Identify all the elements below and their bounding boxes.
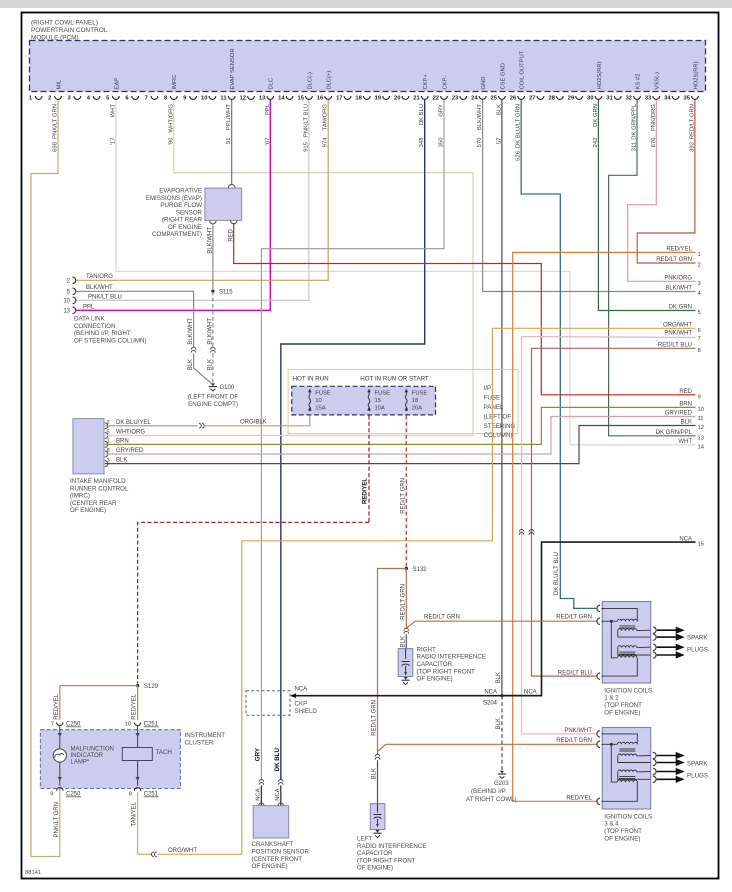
right radio interference capacitor <box>398 649 413 677</box>
svg-text:9: 9 <box>698 394 701 400</box>
wire into MIL <box>59 726 61 749</box>
svg-text:21: 21 <box>413 96 420 102</box>
left radio interference capacitor <box>370 804 385 830</box>
svg-text:FUSE: FUSE <box>315 391 331 397</box>
svg-text:PLUGS: PLUGS <box>687 772 708 779</box>
svg-text:RIGHT: RIGHT <box>417 646 436 653</box>
svg-text:COIL OUTPUT: COIL OUTPUT <box>520 50 526 89</box>
svg-text:25: 25 <box>490 96 497 102</box>
PCM pin terminal arcs <box>35 96 42 99</box>
svg-text:BLK: BLK <box>208 359 214 370</box>
wire BLK/WHT dashed below S115 <box>212 291 214 347</box>
svg-text:DLC: DLC <box>269 78 275 90</box>
svg-text:20: 20 <box>394 96 400 102</box>
wire RED/LT BLU from right edge pin 8 to ignition coils 1+2 <box>532 348 696 676</box>
wire RED/LT GRN 392 from pin 35 to right edge pin 2 <box>637 100 695 263</box>
svg-text:RED/LT GRN: RED/LT GRN <box>400 478 406 514</box>
wire MIL to C250 pin 9 <box>59 763 61 786</box>
wire PPL 07 from pin 13 to DLC <box>76 100 270 310</box>
svg-text:FUSE: FUSE <box>412 391 428 397</box>
wire BLK/WHT from EVAP sensor to splice S115 <box>210 221 216 224</box>
svg-text:1 & 2: 1 & 2 <box>604 695 619 702</box>
svg-text:NCA: NCA <box>484 689 497 695</box>
svg-text:HO2S(RR): HO2S(RR) <box>597 61 603 89</box>
wire into TACH <box>137 726 139 748</box>
svg-text:(TOP RIGHT FRONT: (TOP RIGHT FRONT <box>417 668 476 675</box>
svg-text:OF ENGINE): OF ENGINE) <box>417 676 453 683</box>
wire PPL/WHT 91 from pin 11 to EVAP sensor <box>231 100 233 185</box>
svg-text:18: 18 <box>355 96 362 102</box>
wire BLK from DLC to G100 <box>194 353 212 383</box>
inline connector on EVAP ground wire <box>211 347 216 349</box>
svg-text:POSITION SENSOR: POSITION SENSOR <box>252 849 310 856</box>
svg-text:RED/LT GRN: RED/LT GRN <box>400 584 406 620</box>
svg-text:BLK: BLK <box>372 768 378 779</box>
svg-text:INDICATOR: INDICATOR <box>71 753 104 759</box>
svg-text:IGNITION COILS: IGNITION COILS <box>604 813 652 820</box>
svg-text:GRY/RED: GRY/RED <box>116 448 144 454</box>
svg-text:CLUSTER: CLUSTER <box>185 739 214 746</box>
svg-text:CAPACITOR: CAPACITOR <box>417 661 453 668</box>
inline connector on PNK/WHT wire <box>519 530 524 532</box>
svg-text:3 & 4: 3 & 4 <box>604 821 619 828</box>
svg-text:RED: RED <box>679 389 692 395</box>
svg-text:BRN: BRN <box>116 439 129 445</box>
svg-text:RED/LT GRN: RED/LT GRN <box>556 738 592 744</box>
svg-text:VSS(-): VSS(-) <box>655 72 661 89</box>
svg-text:18: 18 <box>412 398 418 404</box>
svg-text:KS #2: KS #2 <box>635 74 641 90</box>
svg-text:BLK/WHT: BLK/WHT <box>188 318 194 345</box>
wire TACH to C251 pin 8 <box>137 761 139 786</box>
wire RED/YEL dashed from fuse 15 to splice S129 <box>368 416 370 523</box>
svg-text:BLK/WHT: BLK/WHT <box>208 318 214 345</box>
wire GRY 350 from pin 22 to crank sensor <box>261 100 444 780</box>
wire TAN/ORG 974 from pin 16 to DLC <box>76 100 328 280</box>
svg-text:CSE GND: CSE GND <box>500 63 506 89</box>
svg-text:12: 12 <box>698 425 704 431</box>
inline connector above left radio capacitor <box>375 754 380 756</box>
svg-text:19: 19 <box>375 96 382 102</box>
svg-text:G203: G203 <box>494 781 509 787</box>
svg-text:INTAKE MANIFOLD: INTAKE MANIFOLD <box>70 478 126 485</box>
svg-text:SPARK: SPARK <box>687 760 708 767</box>
svg-text:GRY: GRY <box>254 747 261 761</box>
inline connector on GRY wire <box>259 780 264 782</box>
svg-text:CAPACITOR: CAPACITOR <box>357 850 393 857</box>
svg-text:10: 10 <box>201 96 207 102</box>
svg-text:(CENTER REAR: (CENTER REAR <box>70 500 117 507</box>
svg-text:INSTRUMENT: INSTRUMENT <box>185 732 226 739</box>
svg-text:(RIGHT COWL PANEL): (RIGHT COWL PANEL) <box>31 20 98 27</box>
svg-text:(TOP FRONT: (TOP FRONT <box>604 702 642 709</box>
svg-text:DK BLU: DK BLU <box>274 747 281 771</box>
wire RED/YEL solid from right edge pin 1 to ignition coils 3+4 <box>513 252 696 801</box>
svg-text:PNK/WHT: PNK/WHT <box>564 728 592 734</box>
svg-text:TAN/YEL: TAN/YEL <box>132 801 138 826</box>
svg-text:6: 6 <box>698 328 701 334</box>
svg-text:CONNECTION: CONNECTION <box>74 323 116 330</box>
svg-text:14: 14 <box>698 445 705 451</box>
IMRC box <box>73 419 104 474</box>
svg-text:BLK: BLK <box>188 359 194 370</box>
svg-text:13: 13 <box>63 309 70 315</box>
svg-text:11: 11 <box>220 96 227 102</box>
svg-text:DLC(+): DLC(+) <box>327 71 333 90</box>
svg-text:7: 7 <box>145 96 148 102</box>
ground G100 <box>211 383 215 386</box>
svg-text:CRANKSHAFT: CRANKSHAFT <box>252 841 294 848</box>
svg-text:BLK: BLK <box>496 718 502 729</box>
wire TAN/YEL from C251 pin 8 to ORG/WHT run <box>137 792 139 854</box>
svg-text:ENGINE COMPT): ENGINE COMPT) <box>188 401 238 408</box>
wire BLK to right radio capacitor <box>405 634 407 648</box>
svg-text:RED/YEL: RED/YEL <box>363 478 369 504</box>
ground G203 <box>500 771 504 774</box>
svg-text:9: 9 <box>50 792 53 798</box>
svg-text:(LEFT FRONT OF: (LEFT FRONT OF <box>188 393 239 400</box>
fuse 15 10A <box>367 389 371 393</box>
svg-text:29: 29 <box>568 96 575 102</box>
svg-text:15: 15 <box>297 96 304 102</box>
instrument cluster box <box>40 730 180 789</box>
svg-text:SPARK: SPARK <box>687 634 708 641</box>
svg-text:8: 8 <box>698 348 701 354</box>
wire BLK/WHT 570 from pin 24 to right edge pin 4 <box>483 100 696 292</box>
svg-text:20A: 20A <box>412 406 422 412</box>
svg-text:WHT: WHT <box>678 439 692 445</box>
svg-text:HOT IN RUN OR START: HOT IN RUN OR START <box>360 375 429 382</box>
svg-text:(RIGHT REAR: (RIGHT REAR <box>162 217 203 224</box>
svg-text:BRN: BRN <box>679 402 692 408</box>
right radio capacitor ground <box>404 677 408 680</box>
svg-text:2: 2 <box>698 263 701 269</box>
svg-text:EAP: EAP <box>114 78 120 90</box>
svg-text:OF ENGINE): OF ENGINE) <box>604 836 640 843</box>
svg-text:DK BLU/LT BLU: DK BLU/LT BLU <box>554 552 560 595</box>
svg-text:24: 24 <box>471 96 478 102</box>
svg-text:BLK: BLK <box>496 672 502 683</box>
svg-text:RED/YEL: RED/YEL <box>566 796 592 802</box>
wire RED/LT GRN dashed from fuse 18 to splice S132 <box>405 416 407 569</box>
svg-text:CKP: CKP <box>295 701 308 708</box>
svg-text:(IMRC): (IMRC) <box>70 493 90 500</box>
splice S204 <box>500 694 503 697</box>
I/P fuse panel enclosure <box>288 369 518 433</box>
svg-text:MALFUNCTION: MALFUNCTION <box>71 746 114 752</box>
svg-text:PNK/LT GRN: PNK/LT GRN <box>54 802 60 837</box>
wire PNK/ORG 676 from pin 33 to right edge pin 3 <box>628 100 696 281</box>
svg-text:31: 31 <box>606 96 613 102</box>
inline connector on ORG/WHT run <box>152 852 154 857</box>
svg-text:7: 7 <box>698 336 701 342</box>
left radio capacitor ground <box>376 830 380 833</box>
svg-text:DLC(-): DLC(-) <box>307 72 313 89</box>
wire BLK 57 from pin 25 to splice S204 <box>501 100 503 694</box>
malfunction indicator lamp <box>53 749 66 762</box>
svg-text:RED/YEL: RED/YEL <box>132 693 138 719</box>
svg-text:BLK: BLK <box>116 458 127 464</box>
tach gauge <box>122 748 152 761</box>
svg-text:IGNITION COILS: IGNITION COILS <box>604 687 652 694</box>
svg-text:S115: S115 <box>219 290 233 296</box>
wire RED/LT GRN from S132 down to right capacitor and coils 1+2 <box>405 569 407 628</box>
wire WHT/ORG 90 from pin 8 to IMRC row <box>174 100 473 436</box>
svg-text:10: 10 <box>125 722 131 728</box>
svg-text:33: 33 <box>645 96 652 102</box>
svg-text:NCA: NCA <box>524 689 537 695</box>
svg-text:PANEL: PANEL <box>484 404 504 411</box>
svg-text:S132: S132 <box>413 567 428 573</box>
svg-text:1: 1 <box>698 252 701 258</box>
svg-text:(CENTER FRONT: (CENTER FRONT <box>252 856 303 863</box>
svg-text:RED: RED <box>228 228 234 241</box>
PCM module box <box>30 41 706 92</box>
svg-text:13: 13 <box>259 96 266 102</box>
crankshaft position sensor box <box>259 803 264 806</box>
svg-text:PNK/LT BLU: PNK/LT BLU <box>88 294 122 300</box>
ignition coils 3 and 4 <box>602 728 650 810</box>
svg-text:RED/LT BLU: RED/LT BLU <box>658 343 692 349</box>
svg-text:CKP-: CKP- <box>442 76 448 90</box>
svg-text:PLUGS: PLUGS <box>687 646 708 653</box>
svg-text:OF ENGINE): OF ENGINE) <box>252 863 288 870</box>
wire RED/YEL from S129 to MIL <box>60 686 138 720</box>
svg-text:7: 7 <box>51 722 54 728</box>
svg-text:POWERTRAIN CONTROL: POWERTRAIN CONTROL <box>31 27 108 34</box>
svg-text:PURGE FLOW: PURGE FLOW <box>160 202 202 209</box>
svg-text:TACH: TACH <box>156 749 172 756</box>
svg-text:DK GRN: DK GRN <box>669 305 692 311</box>
wire RED/LT GRN branch from S132 to left capacitor and coils 3+4 <box>378 569 407 751</box>
svg-text:14: 14 <box>278 96 285 102</box>
svg-text:23: 23 <box>452 96 459 102</box>
wire DK BLU/LT GRN 526 from pin 26 to ignition coils 1+2 <box>521 100 597 608</box>
CKP shield <box>246 691 290 716</box>
svg-text:MIL: MIL <box>56 79 62 89</box>
splice S115 <box>211 290 214 293</box>
svg-text:32: 32 <box>626 96 632 102</box>
svg-text:FUSE: FUSE <box>375 391 391 397</box>
svg-text:15A: 15A <box>315 406 325 412</box>
wire NCA into crank sensor from GRY <box>260 785 262 805</box>
svg-text:15: 15 <box>375 398 381 404</box>
svg-text:EVAPORATIVE: EVAPORATIVE <box>159 188 202 195</box>
svg-text:BLK: BLK <box>400 636 406 647</box>
svg-text:11: 11 <box>698 416 704 422</box>
wire ORG/WHT from right edge pin 6 to tach circuit <box>158 328 696 854</box>
wire NCA into crank sensor from DK BLU <box>280 785 282 805</box>
svg-text:DATA LINK: DATA LINK <box>74 316 106 323</box>
svg-text:17: 17 <box>336 96 342 102</box>
inline connector on DLC ground wire <box>191 347 196 349</box>
wire PNK/LT BLU 915 from pin 15 to DLC <box>76 100 309 300</box>
svg-text:NCA: NCA <box>275 788 281 800</box>
svg-text:BLK: BLK <box>681 420 692 426</box>
wire BLK dashed from S204 to G203 <box>501 696 503 771</box>
svg-text:30: 30 <box>587 96 593 102</box>
svg-text:LEFT: LEFT <box>357 836 372 843</box>
svg-text:88141: 88141 <box>25 870 41 876</box>
svg-text:ORG/BLK: ORG/BLK <box>240 419 267 425</box>
svg-text:PNK/ORG: PNK/ORG <box>664 276 692 282</box>
svg-text:10: 10 <box>698 407 704 413</box>
svg-text:22: 22 <box>433 96 439 102</box>
wire DK GRN 242 from pin 30 to right edge pin 5 <box>598 100 695 311</box>
fuse 10 15A <box>308 389 312 393</box>
svg-text:BLK/WHT: BLK/WHT <box>86 285 113 291</box>
inline connector on RED/LT BLU wire <box>529 530 534 532</box>
wire RED from EVAP sensor to right edge pin 9 <box>231 221 237 224</box>
svg-text:HOT IN RUN: HOT IN RUN <box>293 375 329 382</box>
svg-text:(LEFT OF: (LEFT OF <box>484 413 512 420</box>
svg-text:35: 35 <box>683 96 690 102</box>
svg-text:PPL: PPL <box>83 304 95 310</box>
svg-text:RUNNER CONTROL: RUNNER CONTROL <box>70 485 129 492</box>
svg-text:RED/LT GRN: RED/LT GRN <box>656 257 692 263</box>
svg-text:OF STEERING COLUMN): OF STEERING COLUMN) <box>74 337 147 344</box>
svg-text:(TOP RIGHT FRONT: (TOP RIGHT FRONT <box>357 857 416 864</box>
wire RED/YEL from S129 to TACH <box>137 686 139 720</box>
svg-text:28: 28 <box>548 96 555 102</box>
svg-text:(TOP FRONT: (TOP FRONT <box>604 828 642 835</box>
svg-text:15: 15 <box>698 542 704 548</box>
inline connector above right radio capacitor <box>404 628 409 630</box>
svg-text:RED/YEL: RED/YEL <box>54 693 60 719</box>
wire PNK/WHT from right edge pin 7 to ignition coils 3+4 <box>522 337 696 734</box>
wire WHT 17 from pin 5 <box>116 100 696 445</box>
svg-text:G100: G100 <box>220 385 235 391</box>
svg-text:LAMP*: LAMP* <box>71 759 90 765</box>
svg-text:8: 8 <box>129 792 132 798</box>
svg-text:5: 5 <box>698 310 701 316</box>
svg-text:(BEHIND I/P: (BEHIND I/P <box>471 788 506 795</box>
fuse box <box>292 386 436 415</box>
svg-text:26: 26 <box>510 96 517 102</box>
splice S132 <box>405 567 408 570</box>
svg-text:34: 34 <box>664 96 671 102</box>
svg-text:WHT/ORG: WHT/ORG <box>116 430 145 436</box>
svg-text:2: 2 <box>48 96 51 102</box>
svg-text:27: 27 <box>529 96 535 102</box>
svg-text:RED/YEL: RED/YEL <box>666 247 692 253</box>
svg-text:NCA: NCA <box>295 687 308 693</box>
svg-text:RED/LT GRN: RED/LT GRN <box>556 615 592 621</box>
svg-text:(BEHIND I/P, RIGHT: (BEHIND I/P, RIGHT <box>74 330 131 337</box>
svg-text:DK BLU/YEL: DK BLU/YEL <box>116 420 151 426</box>
svg-text:HO2S(RR): HO2S(RR) <box>693 61 699 89</box>
inline connector on DK BLU wire <box>279 780 284 782</box>
wire DK BLU 348 from pin 21 to crank sensor <box>281 100 425 780</box>
svg-text:NCA: NCA <box>256 788 262 800</box>
svg-text:IMRC: IMRC <box>172 75 178 90</box>
svg-text:OF ENGINE): OF ENGINE) <box>70 507 106 514</box>
ignition coils 1 and 2 <box>602 602 650 684</box>
svg-text:I/P: I/P <box>484 385 492 392</box>
svg-text:RED/LT GRN: RED/LT GRN <box>424 615 460 621</box>
svg-text:COMPARTMENT): COMPARTMENT) <box>152 231 202 238</box>
svg-text:3: 3 <box>698 281 701 287</box>
svg-text:DK GRN/PPL: DK GRN/PPL <box>656 430 693 436</box>
svg-text:RADIO INTERFERENCE: RADIO INTERFERENCE <box>357 843 426 850</box>
svg-text:10: 10 <box>63 299 70 305</box>
svg-text:RED/LT BLU: RED/LT BLU <box>558 670 592 676</box>
svg-text:ORG/WHT: ORG/WHT <box>168 848 197 854</box>
EVAP purge flow sensor box <box>228 184 235 187</box>
svg-text:PNK/WHT: PNK/WHT <box>664 331 692 337</box>
svg-text:12: 12 <box>240 96 246 102</box>
svg-text:TAN/ORG: TAN/ORG <box>86 274 113 280</box>
inline connector on IMRC/fuse wire <box>199 424 201 429</box>
svg-text:COLUMN): COLUMN) <box>484 432 513 439</box>
splice S129 <box>136 684 139 687</box>
svg-text:10A: 10A <box>375 406 385 412</box>
svg-text:SENSOR: SENSOR <box>176 209 203 216</box>
svg-text:10: 10 <box>315 398 321 404</box>
wire NCA from right edge pin 15 to splice S204 <box>504 542 696 696</box>
svg-text:RADIO INTERFERENCE: RADIO INTERFERENCE <box>417 654 486 661</box>
wire PNK/LT GRN 698 from pin 2 to left loop <box>31 100 60 857</box>
svg-text:SHIELD: SHIELD <box>295 708 318 715</box>
svg-text:OF ENGINE): OF ENGINE) <box>604 710 640 717</box>
wire NCA from CKP shield to S204 <box>292 695 542 697</box>
svg-text:16: 16 <box>317 96 324 102</box>
svg-text:EVAP SENSOR: EVAP SENSOR <box>230 48 236 89</box>
svg-text:BLK/WHT: BLK/WHT <box>208 227 214 254</box>
svg-text:EMISSIONS (EVAP): EMISSIONS (EVAP) <box>146 195 202 202</box>
wire BLK dashed to G100 <box>212 353 214 383</box>
wire DK GRN/PPL 311 from pin 32 to right edge pin 13 <box>609 100 696 436</box>
fuse 18 20A <box>405 389 409 393</box>
svg-text:RED/LT GRN: RED/LT GRN <box>372 700 378 736</box>
svg-text:S204: S204 <box>483 701 498 707</box>
svg-text:AT RIGHT COWL): AT RIGHT COWL) <box>466 796 517 803</box>
svg-text:GRY/RED: GRY/RED <box>665 411 693 417</box>
svg-text:CKP+: CKP+ <box>423 74 429 90</box>
svg-text:S129: S129 <box>144 684 159 690</box>
wire BLK to left radio capacitor <box>377 760 379 803</box>
svg-text:OF ENGINE): OF ENGINE) <box>357 865 393 872</box>
svg-text:13: 13 <box>698 435 704 441</box>
svg-text:STEERING: STEERING <box>484 423 516 430</box>
svg-text:ORG/WHT: ORG/WHT <box>663 323 692 329</box>
svg-text:GND: GND <box>481 77 487 90</box>
svg-text:BLK/WHT: BLK/WHT <box>665 286 692 292</box>
svg-text:OF ENGINE: OF ENGINE <box>168 224 202 231</box>
